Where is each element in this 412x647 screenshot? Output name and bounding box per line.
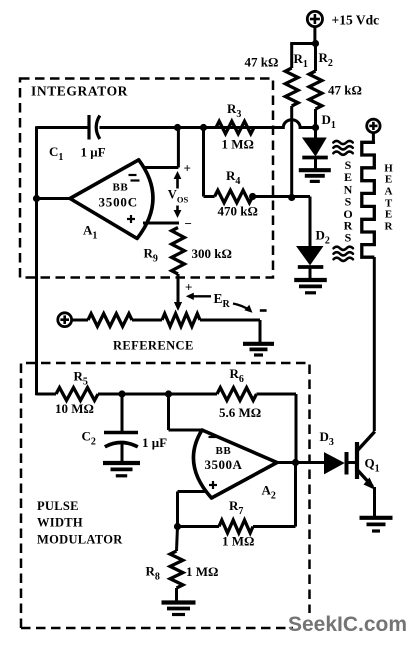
svg-text:R1: R1 xyxy=(294,51,308,70)
svg-text:+: + xyxy=(184,161,191,176)
svg-text:R7: R7 xyxy=(229,498,243,517)
svg-text:−: − xyxy=(185,216,192,231)
svg-text:R2: R2 xyxy=(319,50,333,69)
svg-text:PULSE: PULSE xyxy=(37,499,79,513)
svg-text:E: E xyxy=(385,208,392,220)
svg-text:R5: R5 xyxy=(74,369,88,388)
svg-text:1 μF: 1 μF xyxy=(142,435,167,450)
svg-text:R9: R9 xyxy=(144,246,158,265)
svg-text:BB: BB xyxy=(113,182,129,194)
svg-text:R4: R4 xyxy=(226,168,240,187)
svg-text:D1: D1 xyxy=(322,112,336,131)
svg-text:3500A: 3500A xyxy=(205,457,243,472)
svg-text:300 kΩ: 300 kΩ xyxy=(192,246,232,261)
svg-text:D2: D2 xyxy=(316,228,330,247)
svg-text:1 μF: 1 μF xyxy=(81,145,106,160)
svg-text:REFERENCE: REFERENCE xyxy=(113,339,194,353)
svg-text:A1: A1 xyxy=(83,223,97,242)
svg-text:1 MΩ: 1 MΩ xyxy=(222,137,254,152)
svg-text:A2: A2 xyxy=(262,483,276,502)
svg-text:INTEGRATOR: INTEGRATOR xyxy=(31,84,128,99)
svg-text:3500C: 3500C xyxy=(99,195,138,210)
svg-text:MODULATOR: MODULATOR xyxy=(37,533,123,547)
svg-text:+15 Vdc: +15 Vdc xyxy=(332,13,380,28)
svg-text:1 MΩ: 1 MΩ xyxy=(222,534,254,549)
svg-text:S: S xyxy=(345,231,352,245)
svg-text:+: + xyxy=(185,280,192,295)
svg-text:Q1: Q1 xyxy=(365,456,380,475)
svg-text:D3: D3 xyxy=(320,429,334,448)
svg-text:R: R xyxy=(385,220,394,232)
svg-text:SeekIC.com: SeekIC.com xyxy=(288,613,407,636)
svg-text:R6: R6 xyxy=(230,366,244,385)
svg-text:C2: C2 xyxy=(82,429,96,448)
svg-text:1 MΩ: 1 MΩ xyxy=(186,564,218,579)
svg-text:BB: BB xyxy=(216,445,232,457)
svg-text:E: E xyxy=(385,174,392,186)
svg-text:R3: R3 xyxy=(227,101,241,120)
svg-text:470 kΩ: 470 kΩ xyxy=(218,204,258,219)
svg-text:47 kΩ: 47 kΩ xyxy=(245,55,279,70)
svg-text:10 MΩ: 10 MΩ xyxy=(55,401,94,416)
svg-text:VOS: VOS xyxy=(168,188,189,205)
svg-text:C1: C1 xyxy=(49,144,63,163)
svg-text:5.6 MΩ: 5.6 MΩ xyxy=(219,405,261,420)
svg-text:R8: R8 xyxy=(146,564,160,583)
svg-text:WIDTH: WIDTH xyxy=(37,516,83,530)
svg-text:A: A xyxy=(385,186,393,198)
svg-text:47 kΩ: 47 kΩ xyxy=(328,83,362,98)
svg-text:ER: ER xyxy=(214,291,231,310)
